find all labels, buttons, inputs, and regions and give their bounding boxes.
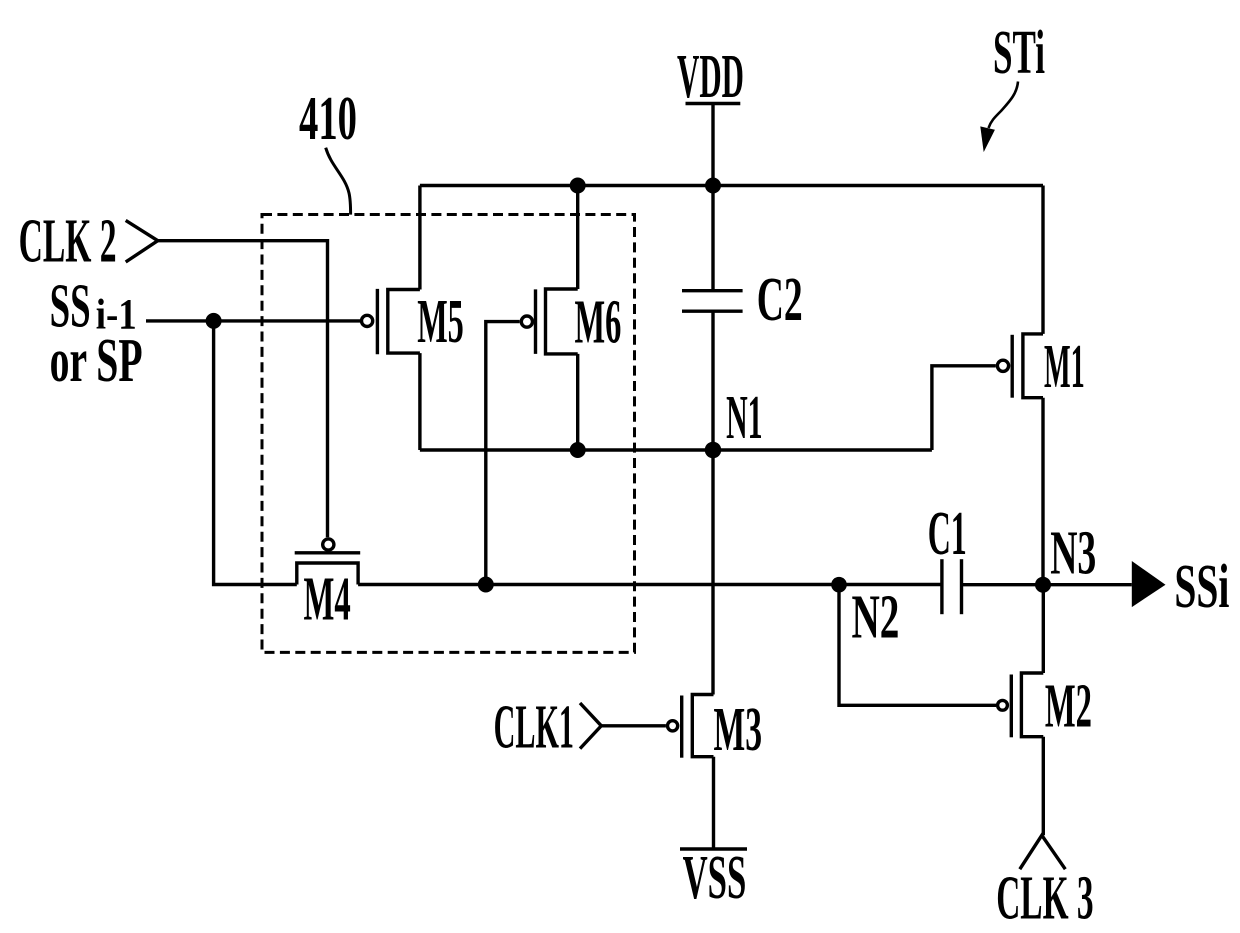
wire M4 output row to C1 (358, 583, 942, 586)
junction dot M6 drain / top rail (570, 178, 586, 194)
svg-text:VSS: VSS (683, 844, 747, 912)
wire M1 source down to N3 (1041, 398, 1044, 585)
svg-text:M3: M3 (714, 696, 763, 764)
label SS i-1 (50, 272, 137, 340)
svg-text:M5: M5 (417, 288, 464, 356)
wire CLK2 to M4 gate (158, 241, 328, 538)
svg-text:M6: M6 (575, 289, 622, 357)
transistor M6 (521, 289, 577, 354)
junction dot SS branch (206, 313, 222, 329)
svg-text:C2: C2 (757, 266, 803, 334)
input chevron CLK1 (580, 703, 601, 749)
wire N2 down to M2 gate (839, 585, 996, 706)
svg-text:C1: C1 (928, 500, 967, 568)
junction dot M6 source / N1 rail (570, 442, 586, 458)
wire VDD stub down to top rail (711, 104, 714, 186)
arrow from STi pointing to circuit (980, 82, 1018, 153)
transistor M2 (998, 673, 1044, 737)
capacitor C2 (682, 291, 743, 312)
transistor M3 (668, 695, 714, 758)
svg-text:N1: N1 (726, 384, 763, 452)
VDD power symbol (677, 43, 744, 111)
output arrow SSi (1132, 561, 1166, 607)
wire top rail right corner down to M1 (1041, 186, 1044, 334)
wire SS input to M5 gate (146, 319, 360, 322)
junction dot M4 / M6 gate feed (478, 577, 494, 593)
wire M6 source down to N1 rail (576, 354, 579, 450)
wire C2 bottom down through N1 to M3 (711, 311, 714, 694)
svg-text:M1: M1 (1044, 333, 1085, 401)
transistor M4 (295, 539, 361, 585)
wire M5 drain up to top rail (418, 186, 421, 290)
svg-text:SSi: SSi (1174, 553, 1229, 621)
svg-text:or SP: or SP (50, 327, 143, 395)
CLK3 input chevron (1020, 835, 1066, 869)
svg-text:CLK 2: CLK 2 (19, 208, 117, 276)
svg-text:M2: M2 (1045, 672, 1092, 740)
wire M2 source down to CLK3 (1042, 737, 1045, 836)
wire top rail (420, 184, 1043, 187)
wire M6 gate down to M4 output (486, 322, 520, 585)
node N1 junction dot (705, 442, 722, 459)
node N2 junction dot (831, 577, 847, 593)
wire N1 to M1 gate (932, 366, 996, 450)
wire CLK1 to M3 gate (601, 724, 666, 727)
wire M6 drain up to top rail (576, 186, 579, 290)
svg-text:N2: N2 (852, 583, 900, 651)
wire N1 rail (420, 448, 932, 451)
svg-text:STi: STi (993, 19, 1045, 87)
svg-text:CLK1: CLK1 (494, 694, 574, 762)
transistor M5 (362, 289, 420, 354)
wire M5 source down to N1 rail (418, 353, 421, 450)
wire C1 to N3 and SSi output (962, 583, 1132, 586)
wire M2 drain up to N3 (1042, 585, 1045, 673)
capacitor C1 (942, 559, 962, 614)
node N3 junction dot (1035, 577, 1051, 593)
wire M3 source down to VSS (712, 757, 715, 849)
leader line from 410 to dashed box (326, 148, 351, 215)
svg-text:VDD: VDD (677, 43, 744, 111)
VSS ground symbol (680, 844, 747, 912)
wire top rail down to C2 (711, 186, 714, 291)
input chevron CLK2 (126, 220, 158, 262)
transistor M1 (997, 334, 1043, 398)
svg-text:N3: N3 (1050, 519, 1096, 587)
junction dot VDD / top rail (705, 178, 721, 194)
wire SS branch down to M4 row (214, 321, 297, 585)
dashed box 410 (262, 215, 635, 653)
svg-text:M4: M4 (304, 566, 351, 634)
svg-text:CLK 3: CLK 3 (996, 865, 1093, 933)
svg-text:410: 410 (299, 85, 357, 153)
